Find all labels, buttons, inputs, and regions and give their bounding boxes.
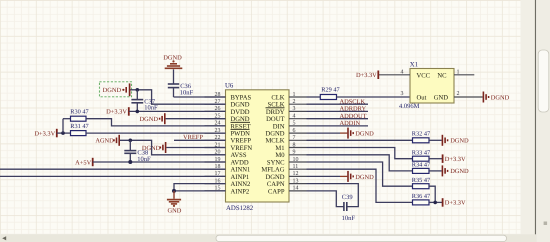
junction C38 bottom on AVDD wire (128, 160, 132, 164)
svg-text:Out: Out (417, 94, 427, 101)
pin 28 (BYPAS) of U6 (205, 92, 252, 102)
wire AGND to pin20 AVSS (steps) (120, 140, 226, 155)
pin 6 (DGND) of U6 (265, 128, 306, 138)
pin 10 (SYNC) of U6 (267, 157, 307, 167)
svg-text:1: 1 (293, 92, 296, 98)
pin 2 (SCLK) of U6 (268, 99, 307, 109)
svg-text:R32 47: R32 47 (412, 131, 430, 138)
svg-text:DGND: DGND (231, 102, 250, 109)
svg-text:4: 4 (401, 69, 404, 75)
svg-text:D+3.3V: D+3.3V (445, 156, 466, 163)
wire pin8 M1 to R33 (307, 148, 413, 159)
svg-text:DGND: DGND (103, 87, 122, 94)
svg-text:DGND: DGND (491, 94, 510, 101)
power port DGND at R34 (442, 165, 469, 176)
pin 4 (DOUT) of U6 (266, 114, 306, 124)
wire pin12 DGND (307, 175, 341, 177)
power port DGND at pin21 VREFN (142, 142, 166, 153)
junction on DGND wire at C37 top (136, 88, 140, 92)
power port A+5V (75, 158, 93, 167)
svg-text:ADDIN: ADDIN (340, 120, 361, 127)
junction C37 bottom on DVDD wire (136, 110, 140, 114)
svg-text:R29 47: R29 47 (321, 86, 339, 93)
svg-text:6: 6 (293, 128, 296, 134)
wire D+3.3V to R30/R31 junction (57, 132, 71, 134)
svg-text:14: 14 (293, 186, 299, 192)
junction AINN2/AINP2/GND (172, 189, 176, 193)
svg-text:DGND: DGND (265, 174, 284, 181)
svg-text:DGND: DGND (450, 138, 469, 145)
pin 22 (VREFP) of U6 (205, 135, 252, 145)
svg-text:2: 2 (457, 91, 460, 97)
svg-text:D+3.3V: D+3.3V (106, 109, 127, 116)
pin 7 (MCLK) of U6 (265, 135, 306, 145)
wire pin13 CAPN to C39 (307, 184, 359, 207)
svg-text:11: 11 (293, 164, 299, 170)
wire pin10 SYNC to R35 (307, 162, 413, 186)
resistor R32 (412, 131, 430, 143)
svg-text:2: 2 (293, 99, 296, 105)
wire R32 to DGND (429, 139, 442, 141)
svg-text:AINP2: AINP2 (231, 188, 250, 195)
pin 23 (PWDN) of U6 (205, 128, 251, 138)
junction AGND / C38 (129, 139, 133, 143)
wire DGND port to pin25 (166, 118, 226, 120)
svg-text:ADDOUT: ADDOUT (340, 113, 367, 120)
wire pin15 AINP2 (174, 190, 226, 192)
svg-text:13: 13 (293, 178, 299, 184)
svg-text:CAPN: CAPN (267, 181, 285, 188)
pin 8 (M1) of U6 (275, 142, 306, 152)
svg-text:10: 10 (293, 157, 299, 163)
svg-text:DVDD: DVDD (231, 109, 250, 116)
svg-text:R34 47: R34 47 (412, 162, 430, 169)
pin 26 (DVDD) of U6 (205, 106, 250, 116)
svg-text:SYNC: SYNC (267, 159, 285, 166)
resistor R35 (412, 177, 430, 189)
wire pin6 DGND (307, 132, 341, 134)
power port DGND at pin12 (348, 171, 374, 182)
svg-text:AINN2: AINN2 (231, 181, 251, 188)
op-amp/ADC U6 ADS1282 body (225, 83, 289, 213)
wire junction up to R30 (62, 119, 64, 133)
resistor R30 (70, 109, 88, 122)
svg-text:3: 3 (293, 106, 296, 112)
pin 13 (CAPN) of U6 (267, 178, 307, 188)
pin 21 (VREFN) of U6 (205, 142, 253, 152)
wire pin9 M0 to R34 (307, 155, 413, 171)
junction at R30/R31 split (61, 131, 65, 135)
capacitor C36 (168, 69, 194, 97)
pin 18 (AINN1) of U6 (205, 164, 251, 174)
svg-text:D+3.3V: D+3.3V (356, 72, 377, 79)
power port D+3.3V at R35/R36 (443, 198, 466, 207)
pin 1 (NC) of X1 (454, 69, 474, 75)
svg-text:AINN1: AINN1 (231, 167, 251, 174)
svg-text:R31 47: R31 47 (70, 123, 88, 130)
pin 11 (MFLAG) of U6 (261, 164, 306, 174)
wire R34 to DGND (429, 170, 442, 172)
svg-text:ADRDRY: ADRDRY (340, 106, 367, 113)
power port DGND at pin25 (140, 113, 165, 124)
svg-text:NC: NC (437, 72, 447, 79)
svg-text:10nF: 10nF (342, 215, 356, 222)
capacitor C37 (131, 90, 158, 112)
pin 24 (RESET) of U6 (205, 121, 251, 131)
svg-text:MCLK: MCLK (265, 138, 284, 145)
svg-text:1: 1 (457, 69, 460, 75)
svg-text:AVSS: AVSS (231, 152, 247, 159)
svg-text:R35 47: R35 47 (412, 177, 430, 184)
wire AINP1 long bus to pin17 (0, 175, 226, 177)
svg-text:ADS1282: ADS1282 (226, 205, 254, 212)
svg-text:BYPAS: BYPAS (231, 94, 252, 101)
svg-text:DGND: DGND (355, 131, 374, 138)
pin 4 (VCC) of X1 (379, 69, 410, 75)
resistor R31 (70, 123, 88, 136)
pin 9 (M0) of U6 (275, 150, 306, 160)
svg-text:3: 3 (401, 91, 404, 97)
power port DGND (selected, dashed box) (99, 82, 131, 97)
pin 17 (AINP1) of U6 (205, 171, 250, 181)
svg-text:DGND: DGND (450, 168, 469, 175)
pin 12 (DGND) of U6 (265, 171, 306, 181)
vertical scrollbar (536, 0, 550, 242)
wire D+3.3V to pin26 DVDD (129, 110, 226, 112)
svg-text:VCC: VCC (417, 72, 431, 79)
svg-text:D+3.3V: D+3.3V (445, 200, 466, 207)
svg-text:4.096M: 4.096M (399, 103, 420, 110)
horizontal scrollbar (0, 234, 536, 242)
svg-text:CLK: CLK (271, 94, 284, 101)
resistor R36 (412, 193, 430, 205)
capacitor C39 (342, 194, 356, 222)
wire pin5 net ADDIN (307, 125, 369, 127)
junction R35/R36 (433, 201, 437, 205)
svg-text:DRDY: DRDY (266, 109, 285, 116)
svg-text:DIN: DIN (273, 123, 285, 130)
svg-text:DGND: DGND (140, 116, 159, 123)
svg-text:7: 7 (293, 135, 296, 141)
pin 2 (GND) of X1 (454, 91, 483, 97)
svg-text:U6: U6 (225, 83, 234, 90)
wire pin3 net ADRDRY (307, 110, 369, 112)
svg-text:R33 47: R33 47 (412, 149, 430, 156)
svg-text:AVDD: AVDD (231, 159, 249, 166)
svg-text:4: 4 (293, 114, 296, 120)
svg-text:DGND: DGND (355, 174, 374, 181)
wire pin14 CAPP to C39 (307, 191, 344, 207)
svg-text:DGND: DGND (265, 131, 284, 138)
pin 16 (AINN2) of U6 (205, 178, 251, 188)
power port DGND at R32 (442, 135, 469, 146)
svg-text:C39: C39 (342, 194, 353, 201)
wire DGND port to pin27 (via step) (131, 90, 226, 104)
svg-text:AGND: AGND (95, 138, 114, 145)
resistor R33 (412, 149, 430, 161)
wire A+5V to pin19 AVDD (93, 161, 226, 163)
power port D+3.3V at DVDD pin26 (106, 107, 129, 116)
power port DGND at pin6 (348, 128, 374, 139)
resistor R29 (320, 86, 339, 99)
pin 5 (DIN) of U6 (273, 121, 307, 131)
svg-text:DGND: DGND (163, 55, 182, 62)
wire pin7 MCLK to R32 (307, 139, 413, 141)
svg-text:GND: GND (434, 94, 449, 101)
capacitor C38 (124, 140, 151, 163)
svg-text:R30 47: R30 47 (70, 109, 88, 116)
svg-text:X1: X1 (410, 61, 418, 68)
svg-text:M1: M1 (275, 145, 284, 152)
svg-text:10nF: 10nF (180, 90, 194, 97)
pin 14 (CAPP) of U6 (268, 186, 307, 196)
wire pin1 CLK to R29 (307, 96, 321, 98)
svg-text:8: 8 (293, 142, 296, 148)
svg-text:9: 9 (293, 150, 296, 156)
svg-text:12: 12 (293, 171, 299, 177)
svg-text:D+3.3V: D+3.3V (34, 130, 55, 137)
wire BYPAS pin28 to C36 (174, 96, 226, 98)
power port DGND at X1 GND (483, 92, 509, 103)
power port GND (earth below) (167, 191, 182, 214)
wire pin4 net ADDOUT (307, 118, 369, 120)
power port DGND (earth symbol above C36) (163, 55, 182, 69)
svg-text:VREFP: VREFP (231, 138, 252, 145)
wire VREFP to pin22 (174, 139, 226, 141)
resistor R34 (412, 162, 430, 174)
power port AGND (95, 135, 119, 146)
svg-text:R36 47: R36 47 (412, 193, 430, 200)
power port D+3.3V at R33 (443, 154, 466, 163)
wire AINN1 long bus to pin18 (0, 168, 226, 170)
wire R36 to D+3.3V (429, 201, 443, 203)
wire R29 to X1 pin3 Out (337, 96, 411, 98)
svg-text:DOUT: DOUT (266, 116, 284, 123)
pin 25 (DGND) of U6 (205, 114, 250, 124)
power port D+3.3V at X1 VCC (356, 71, 378, 80)
svg-text:CAPP: CAPP (268, 188, 285, 195)
wire DGND port to pin21 (166, 147, 225, 149)
pin 15 (AINP2) of U6 (205, 186, 250, 196)
svg-text:ADSCLK: ADSCLK (340, 98, 366, 105)
power port D+3.3V far left (34, 129, 56, 138)
svg-text:PWDN: PWDN (231, 131, 251, 138)
svg-text:AINP1: AINP1 (231, 174, 250, 181)
wire R31 to pin23 PWDN (86, 132, 226, 134)
svg-text:A+5V: A+5V (75, 159, 91, 166)
svg-text:5: 5 (293, 121, 296, 127)
wire R35 to junction (429, 186, 435, 202)
wire R33 to D+3.3V (429, 158, 443, 160)
crystal oscillator X1 body (399, 61, 454, 110)
pin 19 (AVDD) of U6 (205, 157, 249, 167)
svg-text:GND: GND (168, 207, 182, 214)
svg-text:VREFN: VREFN (231, 145, 253, 152)
svg-text:MFLAG: MFLAG (261, 167, 284, 174)
svg-text:M0: M0 (275, 152, 285, 159)
wire pin2 net ADSCLK (307, 103, 369, 105)
pin 1 (CLK) of U6 (271, 92, 306, 102)
wire pin16 AINN2 down to AINP2 (174, 184, 226, 191)
wire R30 to pin24 RESET (step down) (86, 119, 226, 126)
pin 20 (AVSS) of U6 (205, 150, 247, 160)
wire pin11 MFLAG to R36 (307, 169, 413, 202)
pin 3 (Out) of X1 (401, 91, 404, 97)
pin 3 (DRDY) of U6 (266, 106, 307, 116)
svg-text:10nF: 10nF (144, 105, 158, 112)
window side border (521, 0, 536, 234)
pin 27 (DGND) of U6 (205, 99, 250, 109)
